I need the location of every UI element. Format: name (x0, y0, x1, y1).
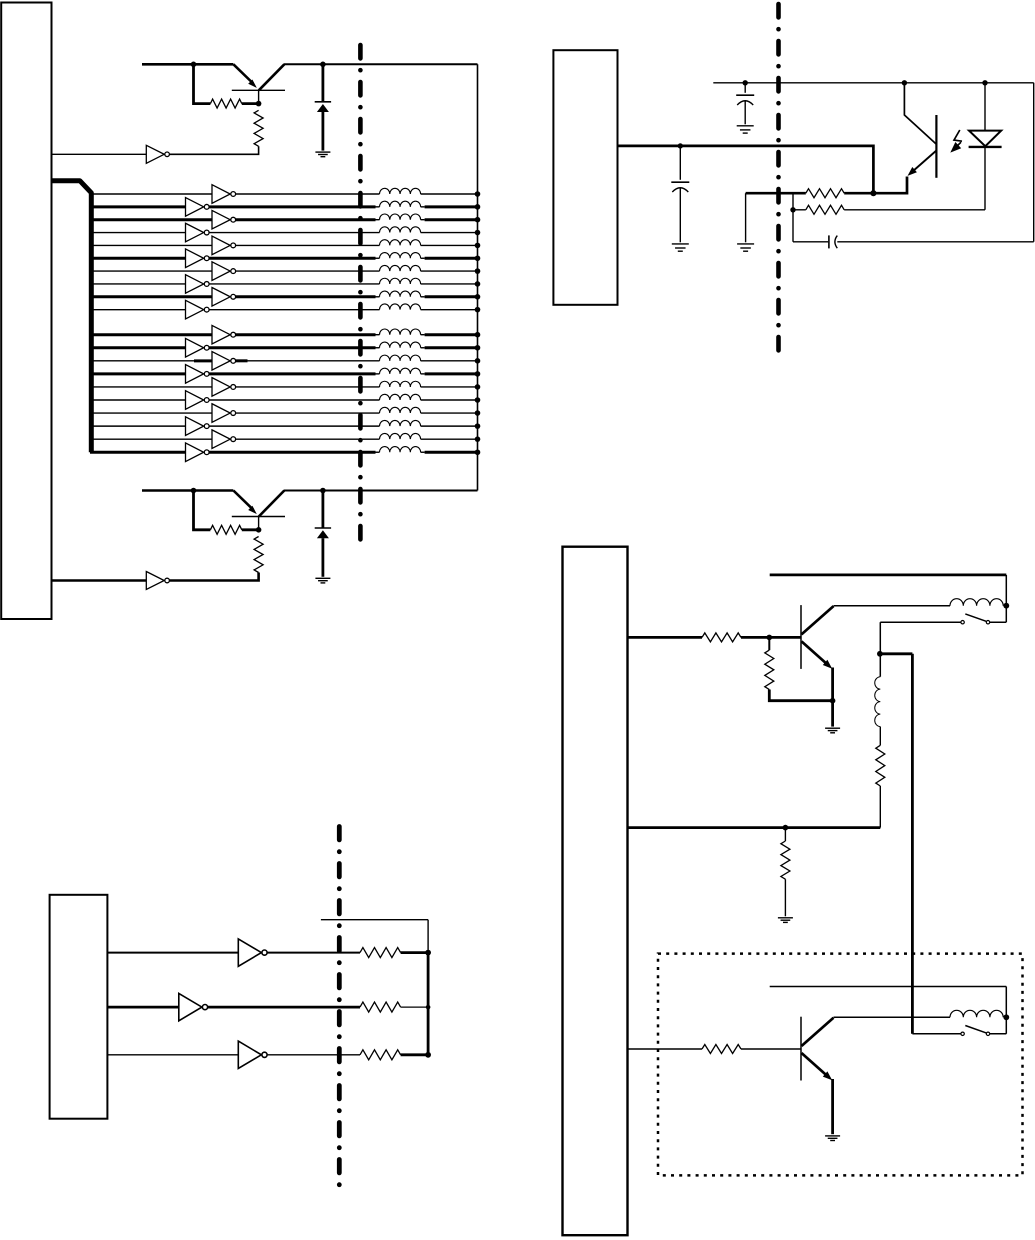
inductor L16 (380, 394, 421, 400)
wire row 15 input (90, 386, 212, 388)
inverter U3c (238, 1041, 267, 1068)
inductor L10 (380, 304, 421, 310)
wire row 16 output (421, 399, 478, 401)
wire row 12 input (90, 346, 186, 349)
wire VCC rail (section B) (713, 82, 1033, 84)
wire row 3 input (90, 218, 212, 221)
wire 2 emitter-resistor leg (194, 491, 211, 530)
inductor L12 (380, 342, 421, 348)
wire row 15 buffer to inductor (236, 386, 380, 388)
resistor R10 (781, 841, 790, 879)
IC U4 (controller block) (563, 547, 628, 1235)
ground Q6 (825, 728, 840, 733)
wire row 18 input (90, 425, 186, 427)
junction row 8 (475, 281, 481, 287)
transistor Q1 emitter arm (233, 64, 256, 88)
wire C3 to VCC (837, 241, 1033, 243)
wire row 4 buffer to inductor (209, 232, 379, 234)
inductor L11 (380, 329, 421, 335)
ground R10 (778, 918, 793, 923)
wire U2 output (618, 146, 874, 192)
wire data bus from U1 (thick) (52, 181, 91, 453)
junction sense node (877, 651, 883, 657)
wire row 13 thick stub in (194, 359, 212, 362)
wire row 19 input (90, 438, 212, 440)
wire R2b to inverter (169, 573, 259, 581)
junction R5 (790, 207, 795, 212)
junction C2 (678, 143, 683, 148)
wire row 3 output (421, 219, 478, 221)
wire row 5 buffer to inductor (236, 244, 380, 246)
junction node 1 base (256, 101, 262, 107)
inductor L9 (380, 291, 421, 297)
resistor R5 (806, 205, 844, 214)
wire inverter 1 to resistor (267, 952, 360, 954)
wire row 8 buffer to inductor (209, 283, 379, 285)
wire row 13 output (421, 360, 478, 362)
junction VCC-Q3 (902, 80, 907, 85)
ground 2 (315, 578, 330, 583)
wire row 10 input (90, 309, 186, 311)
wire row 19 buffer to inductor (236, 438, 380, 440)
buffer A19 (212, 430, 236, 449)
resistor R9 (876, 745, 885, 786)
wire row 2 buffer to inductor (209, 205, 379, 208)
resistor R6 (702, 633, 741, 642)
buffer A12 (186, 338, 210, 357)
junction Q6 base-R7 (767, 635, 773, 641)
wire 2 collector to bus (284, 490, 478, 492)
junction Q6 emitter (830, 698, 836, 704)
transistor Q3 base bar (935, 115, 937, 178)
wire row 17 output (421, 412, 478, 414)
wire row 16 input (90, 399, 186, 401)
wire R10 bottom lead (784, 879, 786, 916)
transistor Q2 base lead (258, 517, 260, 530)
wire R5 to D3 (844, 209, 985, 211)
wire row 10 buffer to inductor (209, 309, 379, 311)
junction rail 2 (426, 1005, 431, 1010)
board boundary line (section B) (776, 4, 781, 359)
wire U3 to inverter 1 (107, 952, 238, 954)
buffer A18 (186, 417, 210, 436)
wire R12 to rail (401, 1006, 429, 1008)
resistor R12 (360, 1002, 401, 1012)
inverter U3b (179, 993, 208, 1020)
wire row 14 output (421, 373, 478, 375)
transistor Q1 base bar (232, 89, 285, 91)
junction rail 1 (425, 950, 431, 956)
resistor R11 (702, 1045, 741, 1054)
wire U4 to R6 base (628, 636, 703, 639)
junction row 14 (475, 371, 481, 377)
junction row 12 (475, 345, 481, 351)
wire row 15 output (421, 386, 478, 388)
wire L8 top lead (879, 654, 881, 677)
wire R10 top lead (784, 828, 786, 841)
wire row 9 output (421, 296, 478, 298)
inductor L17 (380, 407, 421, 413)
junction R4-emitter (870, 190, 876, 196)
wire R4 to node (844, 192, 873, 195)
transistor Q2 base bar (232, 516, 285, 518)
wire 11 contact right (990, 1033, 1007, 1035)
wire row 17 buffer to inductor (236, 412, 380, 414)
capacitor C2 (671, 146, 689, 242)
wire 11 contact left (912, 1033, 961, 1035)
junction row 10 (475, 307, 481, 313)
wire supply stub 6 (770, 574, 1007, 577)
wire row 6 input (90, 257, 186, 260)
wire row 11 output (421, 334, 478, 336)
inductor L6 (relay coil) (950, 599, 1003, 606)
inverter U1 (146, 145, 169, 163)
wire row 20 input (90, 451, 186, 454)
junction node 2 supply (191, 488, 197, 494)
wire termination rail stub (321, 919, 428, 921)
wire row 11 buffer to inductor (236, 333, 380, 336)
junction row 15 (475, 384, 481, 390)
board boundary line (section A) (358, 45, 363, 549)
buffer A5 (212, 236, 236, 255)
inductor L7 (380, 265, 421, 271)
junction row 20 (475, 449, 481, 455)
wire inverter 3 to resistor (267, 1054, 360, 1056)
wire 6 contact right (990, 621, 1007, 623)
junction row 5 (475, 243, 481, 249)
LED D3 cathode wire (984, 147, 986, 210)
transistor Q3 (photo) collector (904, 83, 936, 144)
ground C1 (737, 126, 754, 133)
ground B3 (737, 244, 754, 251)
capacitor C3 (829, 235, 837, 248)
wire Q11 emitter leg (831, 1079, 834, 1134)
wire row 13 thick stub out (236, 359, 248, 362)
wire 1 collector to bus (284, 63, 478, 65)
junction row 1 (475, 191, 481, 197)
wire row 8 output (421, 283, 478, 285)
wire row 13 buffer to inductor (236, 360, 380, 362)
inductor L3 (380, 214, 421, 220)
wire sense node to feedback (880, 652, 913, 655)
wire row 3 buffer to inductor (236, 218, 380, 221)
wire row 8 input (90, 283, 186, 285)
wire supply to 2 (142, 489, 233, 492)
resistor R4 (806, 189, 844, 198)
wire 6 relay right leg (1005, 575, 1007, 622)
wire contact to sense node (879, 622, 881, 654)
junction common-R10 (783, 825, 789, 831)
ground Q11 (825, 1136, 840, 1141)
transistor Q1 base lead (258, 90, 260, 103)
inductor L11 (relay coil) (950, 1010, 1003, 1017)
wire U1 to inverter 1 (52, 153, 146, 155)
junction node 2 base (256, 527, 262, 533)
buffer A2 (186, 198, 210, 217)
junction 11 coil (1003, 1014, 1009, 1020)
transistor Q3 emitter (908, 151, 937, 176)
wire R7 bottom lead (769, 690, 832, 701)
buffer A17 (212, 404, 236, 423)
transistor Q2 emitter arm (233, 491, 256, 515)
inductor L14 (380, 368, 421, 374)
transistor Q11 collector arm (802, 1018, 834, 1046)
wire row 19 output (421, 438, 478, 440)
inductor L18 (380, 420, 421, 426)
ground 1 (315, 152, 330, 157)
diode D1 (315, 102, 331, 112)
junction row 6 (475, 255, 481, 261)
diode D1 anode wire (321, 112, 324, 151)
wire termination rail (427, 953, 430, 1055)
wire row 4 output (421, 232, 478, 234)
resistor R1b (254, 110, 263, 146)
wire R5 branch (792, 193, 794, 242)
wire U4 to R11 base (628, 1048, 703, 1050)
transistor Q11 emitter arm (802, 1053, 833, 1080)
wire supply to 1 (142, 63, 233, 66)
wire feedback vertical (911, 654, 914, 1034)
buffer A13 (212, 352, 236, 371)
wire row 20 output (421, 451, 478, 453)
IC U1 (driver block) (1, 3, 51, 620)
wire C3 left (793, 241, 828, 243)
wire R11 to base (741, 1048, 801, 1050)
buffer A3 (212, 210, 236, 229)
junction node 2 diode (320, 488, 326, 494)
junction row 3 (475, 217, 481, 223)
wire row 11 input (90, 333, 212, 336)
resistor R13 (360, 1050, 401, 1060)
wire 1 emitter-resistor leg (194, 64, 211, 103)
wire 11 relay right leg (1005, 987, 1007, 1034)
wire R5 lead (793, 209, 806, 211)
resistor R11 (360, 948, 401, 958)
wire row 18 buffer to inductor (209, 425, 379, 427)
wire row 7 output (421, 270, 478, 272)
wire row 12 output (421, 347, 478, 349)
junction row 16 (475, 397, 481, 403)
wire row 1 buffer to inductor (236, 193, 380, 195)
wire termination rail upper (427, 920, 429, 953)
buffer A1 (212, 185, 236, 204)
wire row 14 buffer to inductor (209, 372, 379, 375)
wire row 20 buffer to inductor (209, 451, 379, 454)
wire R9 to common (879, 786, 881, 828)
junction row 18 (475, 423, 481, 429)
wire row 16 buffer to inductor (209, 399, 379, 401)
transistor Q2 collector arm (259, 491, 285, 517)
junction row 11 (475, 332, 481, 338)
wire row 4 input (90, 232, 186, 234)
junction row 13 (475, 358, 481, 364)
junction node 1 diode (320, 62, 326, 68)
transistor Q6 base bar (800, 605, 802, 669)
resistor R7 (base-emitter) (765, 650, 774, 689)
wire row 10 output (421, 309, 478, 311)
wire R1a to base (242, 102, 259, 105)
buffer A7 (212, 262, 236, 281)
wire row 14 input (90, 372, 186, 375)
wire row 12 buffer to inductor (209, 346, 379, 349)
wire row 1 output (421, 193, 478, 195)
wire inverter 2 to resistor (208, 1006, 360, 1009)
wire row 9 input (90, 295, 212, 298)
transistor Q1 collector arm (259, 64, 285, 90)
junction row 7 (475, 268, 481, 274)
inductor L8 (sense coil) (875, 677, 881, 727)
inverter U2 (146, 572, 169, 590)
junction VCC-C1 (743, 80, 748, 85)
inductor L2 (380, 201, 421, 207)
junction node 1 supply (191, 62, 197, 68)
wire node to emitter (873, 177, 907, 194)
buffer A14 (186, 365, 210, 384)
junction row 9 (475, 294, 481, 300)
buffer A20 (186, 443, 210, 462)
wire row 5 output (421, 244, 478, 246)
resistor R2a (210, 525, 241, 534)
wire row 7 buffer to inductor (236, 270, 380, 272)
inductor L8 (380, 278, 421, 284)
wire 6 collector rail (834, 605, 951, 607)
IC U2 (interface block) (553, 50, 617, 305)
junction row 4 (475, 230, 481, 236)
wire 11 collector rail (834, 1016, 951, 1018)
wire row 1 input (90, 193, 212, 195)
junction row 19 (475, 436, 481, 442)
diode D2 cathode wire (321, 491, 324, 529)
buffer A15 (212, 378, 236, 397)
resistor R2b (254, 537, 263, 573)
wire 6 contact left (880, 621, 961, 623)
IC U3 (output block) (50, 895, 108, 1119)
transistor Q6 emitter arm (802, 641, 833, 668)
wire Q6 emitter leg (831, 668, 834, 727)
wire row 13 input (90, 360, 212, 362)
wire row 18 output (421, 425, 478, 427)
diode D2 (315, 528, 331, 538)
wire row 7 input (90, 270, 212, 272)
switch K11 (relay contact) (961, 1026, 990, 1036)
diode D1 cathode wire (321, 64, 324, 102)
inverter U3a (238, 939, 267, 966)
buffer A4 (186, 223, 210, 242)
wire L8 to R9 (879, 727, 881, 746)
junction row 17 (475, 410, 481, 416)
board boundary line (section C) (337, 827, 342, 1186)
wire R11 to rail (401, 951, 429, 954)
inductor L5 (380, 240, 421, 246)
LED D3 (969, 131, 1002, 147)
wire row 2 output (421, 206, 478, 208)
inductor L13 (380, 355, 421, 361)
resistor R1a (210, 99, 241, 108)
junction VCC-D3 (982, 80, 987, 85)
inductor L20 (380, 447, 421, 453)
ground C2 (672, 244, 689, 251)
inductor L6 (380, 253, 421, 259)
buffer A11 (212, 325, 236, 344)
wire R13 to rail (401, 1053, 429, 1056)
wire U3 to inverter 2 (107, 1006, 178, 1009)
wire R7 top lead (768, 637, 770, 650)
buffer A6 (186, 249, 210, 268)
diode D2 anode wire (321, 538, 324, 577)
net V+ right bus (section A) (477, 64, 479, 490)
wire U3 to inverter 3 (107, 1054, 238, 1056)
wire supply stub 11 (770, 986, 1007, 988)
wire row 6 buffer to inductor (209, 257, 379, 260)
inductor L15 (380, 381, 421, 387)
junction rail 3 (425, 1052, 431, 1058)
option module box (dotted) (658, 954, 1023, 1176)
ground stem (section B) (745, 193, 747, 242)
wire right rail (section B) (1033, 83, 1035, 242)
wire row 17 input (90, 412, 212, 414)
wire row 2 input (90, 205, 186, 208)
inductor L4 (380, 227, 421, 233)
wire row 5 input (90, 244, 212, 246)
junction row 2 (475, 204, 481, 210)
wire R6 to base (741, 636, 801, 639)
wire row 6 output (421, 257, 478, 259)
buffer A16 (186, 391, 210, 410)
LED D3 anode wire (984, 83, 986, 131)
buffer A8 (186, 275, 210, 294)
switch K6 (relay contact) (961, 614, 990, 624)
wire R2a to base (242, 528, 259, 531)
wire U1 to inverter 2 (52, 579, 146, 582)
inductor L1 (380, 188, 421, 194)
transistor Q11 base bar (800, 1017, 802, 1081)
wire ground to R4 (746, 192, 806, 195)
transistor Q6 collector arm (802, 606, 834, 634)
junction 6 coil (1003, 603, 1009, 609)
buffer A10 (186, 300, 210, 319)
opto light arrow (950, 130, 962, 153)
wire R1b to inverter (169, 146, 259, 154)
capacitor C1 (736, 83, 754, 125)
wire U4 common rail (628, 826, 881, 829)
inductor L19 (380, 433, 421, 439)
buffer A9 (212, 288, 236, 307)
wire row 9 buffer to inductor (236, 295, 380, 298)
